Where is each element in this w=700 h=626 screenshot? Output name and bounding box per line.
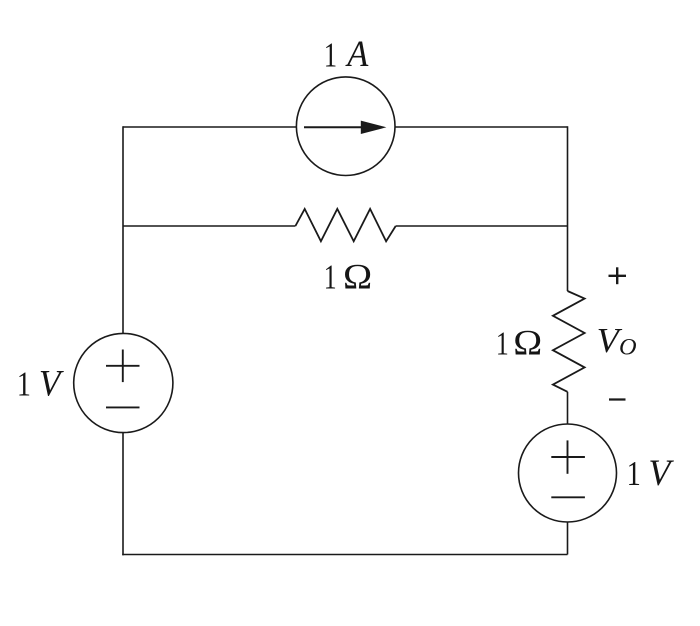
wire middle-left horizontal xyxy=(123,225,295,227)
label 1 V (V1) xyxy=(17,363,64,404)
svg-text:1: 1 xyxy=(496,324,509,362)
svg-text:Ω: Ω xyxy=(513,324,542,363)
label 1 V (V2) xyxy=(627,453,675,493)
wire middle-right horizontal xyxy=(396,225,568,227)
label − (Vo polarity) xyxy=(609,398,626,400)
wire bottom horizontal xyxy=(122,554,567,556)
wire top-right horizontal xyxy=(395,126,567,128)
svg-text:V: V xyxy=(39,363,64,404)
wire left vertical upper xyxy=(122,126,124,333)
label + (Vo polarity) xyxy=(609,267,627,284)
current source I1 (1 A) xyxy=(296,77,395,176)
voltage source V2 (1 V, bottom right) xyxy=(519,424,617,522)
svg-text:A: A xyxy=(345,33,369,75)
wire top-left horizontal xyxy=(123,126,296,128)
svg-text:O: O xyxy=(619,335,637,360)
resistor R1 (1 Ω, horizontal) xyxy=(295,209,395,241)
wire left vertical lower xyxy=(122,433,124,556)
wire right vertical lower xyxy=(567,522,569,555)
svg-text:1: 1 xyxy=(324,35,337,74)
wire right vertical upper xyxy=(567,126,569,291)
svg-text:Ω: Ω xyxy=(343,258,372,297)
label Vo xyxy=(597,321,637,360)
svg-text:1: 1 xyxy=(627,454,641,492)
label 1 Ω (R2) xyxy=(496,324,542,363)
voltage source V1 (1 V, left) xyxy=(74,333,173,432)
svg-text:V: V xyxy=(648,453,674,493)
wire right vertical middle xyxy=(567,392,569,425)
svg-text:1: 1 xyxy=(324,258,337,297)
label 1 A xyxy=(324,33,370,75)
svg-text:1: 1 xyxy=(17,365,31,403)
label 1 Ω (R1) xyxy=(324,258,372,297)
resistor R2 (1 Ω, vertical) xyxy=(553,291,585,392)
